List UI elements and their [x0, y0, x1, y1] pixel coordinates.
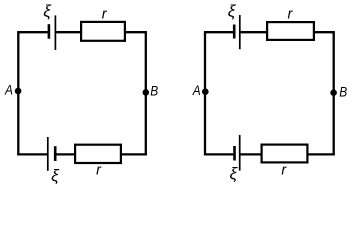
wire: circuit 2 bottom-right segment (R4 to corner): [307, 153, 335, 155]
battery E4 (bottom of circuit 2), short thick negative plate: [233, 146, 236, 161]
wire: circuit 2 left vertical (A branch): [204, 31, 206, 155]
wire: circuit 2 right vertical (B branch): [333, 31, 335, 155]
label r of resistor R1: [102, 6, 108, 22]
battery E2 (bottom of circuit 1), long thin positive plate: [47, 137, 49, 171]
label ξ of battery E1: [43, 1, 52, 20]
svg-text:ξ: ξ: [51, 166, 60, 185]
battery E1 (top of circuit 1), long thin positive plate: [54, 15, 56, 50]
resistor R2 (bottom of circuit 1): [75, 145, 121, 163]
svg-text:ξ: ξ: [230, 164, 239, 183]
wire: circuit 1 right vertical (B branch): [145, 31, 147, 155]
wire: circuit 1 left vertical (A branch): [17, 31, 19, 155]
battery E4 (bottom of circuit 2), long thin positive plate: [239, 135, 241, 171]
svg-text:ξ: ξ: [228, 1, 237, 20]
label r of resistor R2: [96, 162, 102, 178]
svg-text:r: r: [288, 6, 294, 22]
svg-text:r: r: [281, 162, 287, 178]
label A (circuit 1): [4, 82, 13, 98]
wire: circuit 2 bottom middle segment (E4 to R4): [240, 153, 262, 155]
wire: circuit 2 top-left segment: [204, 31, 233, 33]
svg-text:r: r: [102, 6, 108, 22]
battery E1 (top of circuit 1), short thick negative plate: [48, 24, 51, 39]
wire: circuit 2 bottom-left segment: [204, 153, 233, 155]
svg-text:ξ: ξ: [43, 1, 52, 20]
wire: circuit 2 top middle segment (E3 to R3): [240, 31, 268, 33]
wire: circuit 1 top middle segment (E1 to R1): [56, 31, 82, 33]
label ξ of battery E3: [228, 1, 237, 20]
wire: circuit 1 top-right segment (R1 to corner): [125, 31, 147, 33]
wire: circuit 1 bottom-right segment (R2 to corner): [121, 153, 147, 155]
node A (circuit 1) junction dot: [15, 88, 22, 95]
wire: circuit 1 bottom middle segment (E2 to R2): [56, 153, 76, 155]
svg-text:A: A: [4, 82, 13, 98]
resistor R3 (top of circuit 2): [267, 22, 314, 40]
battery E3 (top of circuit 2), long thin positive plate: [239, 15, 241, 49]
battery E2 (bottom of circuit 1), short thick negative plate: [54, 146, 57, 161]
resistor R4 (bottom of circuit 2): [262, 145, 308, 163]
wire: circuit 1 top-left segment: [17, 31, 47, 33]
label A (circuit 2): [192, 82, 201, 98]
label ξ of battery E4: [230, 164, 239, 183]
label B (circuit 1): [150, 83, 158, 99]
node A (circuit 2) junction dot: [202, 88, 209, 95]
resistor R1 (top of circuit 1): [81, 22, 125, 41]
svg-text:A: A: [192, 82, 201, 98]
label ξ of battery E2: [51, 166, 60, 185]
svg-text:B: B: [150, 83, 158, 99]
label r of resistor R3: [288, 6, 294, 22]
wire: circuit 2 top-right segment (R3 to corner): [314, 31, 335, 33]
wire: circuit 1 bottom-left segment: [17, 153, 47, 155]
battery E3 (top of circuit 2), short thick negative plate: [233, 25, 236, 39]
label B (circuit 2): [339, 84, 347, 100]
svg-text:B: B: [339, 84, 347, 100]
svg-text:r: r: [96, 162, 102, 178]
node B (circuit 1) junction dot: [143, 89, 150, 96]
node B (circuit 2) junction dot: [330, 89, 337, 96]
label r of resistor R4: [281, 162, 287, 178]
